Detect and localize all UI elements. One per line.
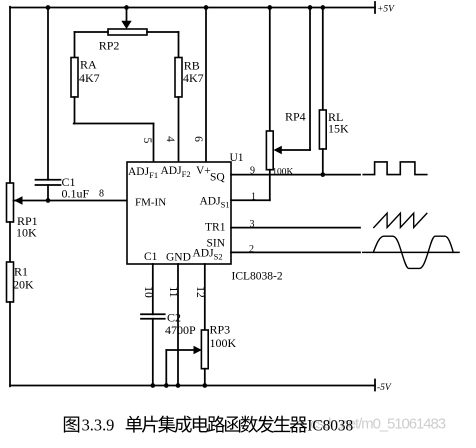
svg-text:10K: 10K bbox=[16, 226, 37, 240]
svg-text:10: 10 bbox=[142, 286, 154, 298]
svg-text:4700P: 4700P bbox=[165, 323, 196, 337]
svg-text:2: 2 bbox=[249, 244, 254, 255]
svg-text:SQ: SQ bbox=[210, 172, 225, 184]
svg-text:9: 9 bbox=[250, 166, 255, 177]
svg-text:-5V: -5V bbox=[377, 383, 392, 393]
svg-text:IC8038: IC8038 bbox=[307, 417, 353, 434]
svg-text:TR1: TR1 bbox=[205, 222, 226, 234]
svg-text:4K7: 4K7 bbox=[183, 71, 204, 85]
svg-text:6: 6 bbox=[192, 136, 204, 142]
svg-text:4: 4 bbox=[164, 136, 176, 142]
svg-text:100K: 100K bbox=[210, 336, 237, 350]
svg-text:C1: C1 bbox=[144, 251, 158, 263]
svg-text:100K: 100K bbox=[272, 168, 293, 178]
svg-text:5: 5 bbox=[141, 138, 153, 144]
svg-text:RP4: RP4 bbox=[285, 110, 306, 124]
svg-text:+5V: +5V bbox=[377, 5, 395, 15]
svg-text:8: 8 bbox=[99, 189, 104, 200]
svg-text:RP3: RP3 bbox=[210, 323, 231, 337]
svg-text:12: 12 bbox=[194, 286, 206, 298]
svg-text:4K7: 4K7 bbox=[79, 71, 100, 85]
svg-text:20K: 20K bbox=[13, 278, 34, 292]
svg-text:3.3.9: 3.3.9 bbox=[82, 415, 115, 434]
svg-text:15K: 15K bbox=[328, 122, 349, 136]
svg-text:U1: U1 bbox=[230, 152, 244, 164]
svg-text:RA: RA bbox=[80, 58, 97, 72]
svg-text:11: 11 bbox=[167, 286, 179, 297]
svg-text:GND: GND bbox=[166, 252, 191, 264]
svg-text:ICL8038-2: ICL8038-2 bbox=[232, 271, 283, 283]
svg-text:3: 3 bbox=[250, 219, 255, 230]
svg-text:R1: R1 bbox=[14, 265, 28, 279]
svg-text:FM-IN: FM-IN bbox=[135, 197, 166, 209]
svg-text:RP2: RP2 bbox=[99, 39, 120, 53]
svg-text:V+: V+ bbox=[196, 165, 211, 177]
svg-text:1: 1 bbox=[251, 192, 256, 203]
svg-text:0.1uF: 0.1uF bbox=[62, 187, 90, 201]
